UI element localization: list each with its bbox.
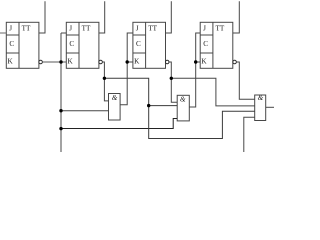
wire DD7 input 4 from bottom stub [244, 117, 255, 152]
svg-text:TT: TT [22, 25, 31, 33]
wire net Q2: bubble DD2 down to DD5 input 1 [102, 62, 108, 101]
junction Q2/DD6 [147, 104, 150, 107]
wire net Q2: branch down to DD7 input 3 [149, 106, 255, 139]
and-gate DD7 box [255, 95, 266, 121]
wire Q1 output stub up [39, 1, 45, 33]
wire net Q1: vertical trunk at x=61 [60, 33, 62, 152]
svg-text:TT: TT [82, 25, 91, 33]
junction Q1/K2 [59, 60, 62, 63]
wire Q2 output stub up [99, 1, 105, 33]
wire Q3 output stub up [166, 1, 172, 33]
wire net Q3: branch right to DD7 input 2 [171, 78, 254, 106]
svg-text:J: J [69, 25, 72, 33]
svg-text:C: C [203, 40, 208, 48]
svg-text:&: & [112, 94, 118, 102]
svg-text:C: C [9, 40, 14, 48]
svg-text:K: K [68, 58, 74, 66]
wire net Q1: branch to J of DD2 [61, 32, 66, 34]
flip-flop DD3 box [133, 22, 166, 68]
wire net Q3: bubble DD3 down to DD6 input 1 [169, 62, 177, 102]
and-gate DD5 box [109, 94, 121, 121]
wire DD7 output to right edge [266, 106, 274, 108]
inverted output bubble DD2 [99, 60, 103, 64]
svg-text:J: J [203, 25, 206, 33]
inverted output bubble DD3 [165, 60, 169, 64]
wire K input DD3 [127, 61, 133, 63]
junction Q1/DD6 [59, 127, 62, 130]
flip-flop DD4 box [200, 22, 233, 68]
wire net Q1: long branch to DD6 input 3 [61, 119, 177, 129]
junction DD5out/K3 [126, 60, 129, 63]
svg-text:C: C [69, 40, 74, 48]
junction Q1/DD5 [59, 109, 62, 112]
svg-text:&: & [258, 94, 264, 102]
svg-text:TT: TT [148, 25, 157, 33]
inverted output bubble DD4 [233, 60, 237, 64]
wire K input DD4 [196, 61, 201, 63]
flip-flop DD2 box [66, 22, 99, 68]
svg-text:J: J [9, 25, 12, 33]
and-gate DD6 box [177, 95, 189, 121]
junction DD6out/K4 [194, 60, 197, 63]
flip-flop DD1 box [6, 22, 39, 68]
wire DD5 output to J/K of DD3 [120, 33, 133, 105]
wire Q4 output stub up [233, 1, 239, 33]
wire net Q1: bubble DD1 to K of DD2 [42, 61, 66, 63]
wire DD6 output to J/K of DD4 [189, 33, 200, 107]
svg-text:TT: TT [216, 25, 225, 33]
wire net Q2: branch right to DD6 input 2 [104, 78, 177, 105]
junction Q2 branch [103, 77, 106, 80]
svg-text:K: K [8, 58, 14, 66]
junction Q3 branch [170, 77, 173, 80]
svg-text:C: C [136, 40, 141, 48]
wire net Q4: bubble DD4 down to DD7 input 1 [236, 62, 254, 99]
svg-text:K: K [201, 58, 207, 66]
svg-text:J: J [136, 25, 139, 33]
svg-text:&: & [180, 95, 186, 103]
wire J input stub DD1 [0, 32, 6, 34]
svg-text:K: K [134, 58, 140, 66]
wire net Q1: branch to DD5 input 2 [61, 110, 109, 112]
inverted output bubble DD1 [39, 60, 43, 64]
